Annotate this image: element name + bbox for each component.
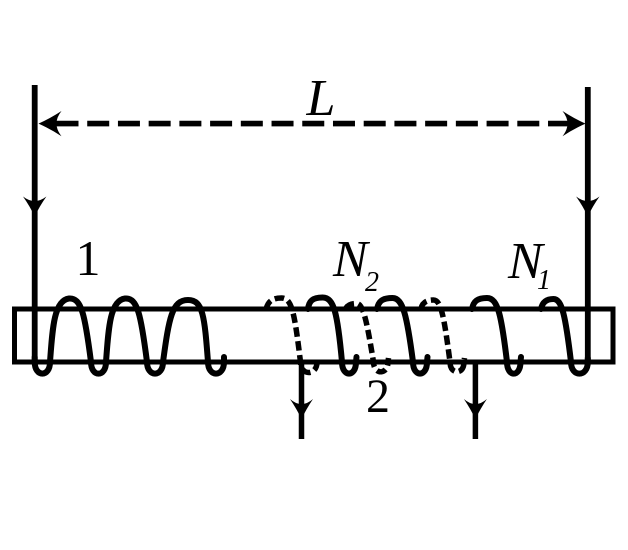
- tap wire 2 right: [473, 360, 479, 439]
- svg-text:1: 1: [76, 230, 101, 286]
- arrowhead tap right: [464, 399, 487, 419]
- svg-text:2: 2: [366, 370, 390, 423]
- coil solid turns 1-4: [35, 298, 224, 373]
- svg-text:2: 2: [365, 267, 379, 298]
- dimension arrowhead right: [563, 111, 586, 136]
- dimension dashed line L: [57, 121, 571, 127]
- svg-text:1: 1: [537, 265, 551, 296]
- core rectangle: [15, 309, 614, 362]
- coil dotted turn C: [421, 300, 465, 372]
- dimension arrowhead left: [39, 111, 62, 136]
- wire left lead: [32, 85, 38, 360]
- coil solid turn 5: [308, 298, 357, 374]
- coil solid turn 8 joining right lead: [541, 299, 588, 374]
- arrowhead tap left: [290, 399, 313, 419]
- svg-text:L: L: [306, 70, 336, 127]
- arrowhead right lead: [576, 197, 599, 217]
- coil solid turn 7: [472, 298, 521, 374]
- coil solid turn 6: [377, 298, 428, 374]
- coil dotted turn B: [346, 304, 389, 372]
- wire right lead: [585, 87, 591, 360]
- coil dotted turn A: [266, 298, 318, 373]
- tap wire 2 left: [299, 360, 305, 439]
- arrowhead left lead: [23, 197, 46, 217]
